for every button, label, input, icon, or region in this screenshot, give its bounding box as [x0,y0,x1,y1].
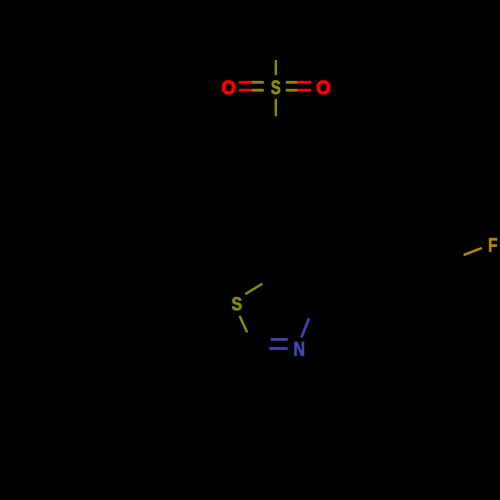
bond S1=O1 upper line, O(red) half [239,81,252,84]
bond S1=O1 lower line, O(red) half [239,89,252,92]
bond S1=O1 upper line, S(olive) half [252,81,264,84]
bond S1=O2 lower line, S(olive) half [286,89,298,92]
bond S1=O2 upper line, O(red) half [297,81,311,84]
atom label S2 (thiazole sulfur) [232,297,242,310]
atom label N (thiazole nitrogen) [295,342,304,356]
atom label O1 (left oxygen) [222,81,235,94]
bond C-F (F half) [464,248,482,255]
bond thiazole S2-C2 (S half) [240,316,248,333]
atom label O2 (right oxygen) [317,81,330,94]
bond N-C4 (N half) [301,318,309,337]
bond S1=O2 lower line, O(red) half [297,89,311,92]
atom label F (fluorine) [489,238,497,251]
bond S1=O2 upper line, S(olive) half [286,81,298,84]
bond C2=N upper line (N half) [271,338,288,341]
bond C2=N lower line (N half) [269,347,287,350]
bond S1=O1 lower line, S(olive) half [252,89,264,92]
wire: methyl C-S1 bond (S half) [275,60,277,75]
bond thiazole S2-C5 (S half) [245,284,262,295]
wire: S1-phenyl C1 bond (S half) [275,99,277,116]
atom label S1 (sulfonyl sulfur) [271,80,280,94]
